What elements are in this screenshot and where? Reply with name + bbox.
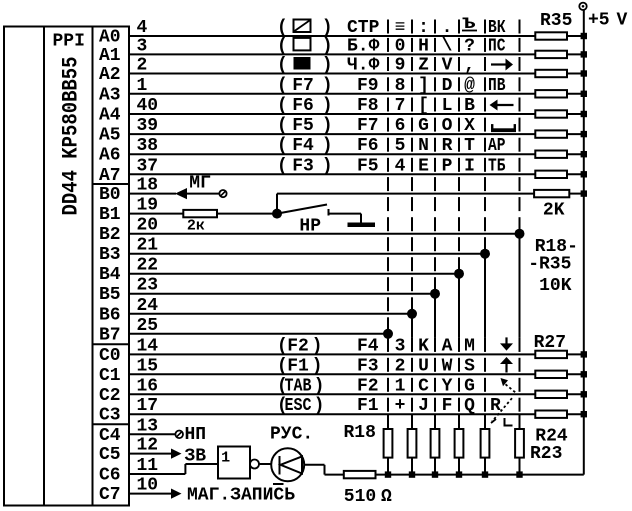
junction B7 column 1 (383, 329, 393, 339)
ground bar (348, 223, 376, 228)
wire R20 to bottom rail (434, 458, 436, 475)
wire R21 to bottom rail (458, 458, 460, 475)
svg-text:F6: F6 (357, 136, 379, 156)
port group separator C3/C4 (93, 423, 130, 425)
wire row C2 pin 16 (129, 393, 535, 395)
svg-text:K: K (418, 336, 429, 356)
junction column 4 bottom rail (456, 471, 462, 477)
svg-text:3: 3 (395, 336, 406, 356)
svg-text:B2: B2 (99, 225, 121, 245)
svg-text:TAB: TAB (285, 376, 312, 396)
wire A7 resistor to +5V rail (567, 173, 584, 175)
svg-text:(: ( (277, 18, 288, 38)
svg-text:): ) (322, 116, 333, 136)
matrix column 5 line x=485 (484, 20, 486, 34)
junction A3 on +5V rail (581, 91, 587, 97)
svg-text:F5: F5 (357, 156, 379, 176)
svg-text:C0: C0 (99, 346, 121, 366)
svg-text:Q: Q (464, 396, 475, 416)
wire C5 pin 12 (129, 453, 171, 455)
svg-text:ВК: ВК (488, 18, 506, 38)
svg-text:A2: A2 (99, 65, 121, 85)
svg-text:C3: C3 (99, 406, 121, 426)
svg-text:1: 1 (221, 450, 230, 467)
svg-text:F1: F1 (357, 396, 379, 416)
wire row A2 pin 2 (129, 73, 535, 75)
junction column 2 bottom rail (409, 471, 415, 477)
IC inner divider left (43, 27, 45, 506)
svg-text:.: . (442, 18, 453, 38)
svg-text:R: R (442, 136, 453, 156)
svg-text:F4: F4 (357, 336, 379, 356)
svg-text:Z: Z (418, 56, 429, 76)
wire A6 resistor to +5V rail (567, 153, 584, 155)
svg-text:ПВ: ПВ (488, 76, 506, 96)
svg-text::: : (418, 18, 429, 38)
svg-text:2: 2 (395, 356, 406, 376)
resistor R25 row C2 (535, 391, 567, 398)
svg-text:-R35: -R35 (528, 255, 571, 275)
IC DD44 KP580BB55 box (4, 27, 129, 506)
junction C2 on +5V rail (581, 391, 587, 397)
svg-text:@: @ (464, 76, 475, 96)
wire row A7 pin 37 (129, 173, 535, 175)
terminal NP circle (175, 431, 183, 439)
junction column 6 bottom rail (516, 471, 522, 477)
wire B6 pin 24 (129, 313, 412, 315)
svg-text:+5: +5 (588, 11, 610, 31)
svg-text:F3: F3 (292, 156, 314, 176)
svg-text:F9: F9 (357, 76, 379, 96)
svg-text:Ω: Ω (381, 487, 392, 507)
key arrow left (497, 104, 514, 106)
wire B2 pin 20 (129, 233, 520, 235)
wire C4 pin 13 (129, 433, 175, 435)
svg-text:B4: B4 (99, 265, 121, 285)
svg-text:2к: 2к (187, 217, 205, 234)
LED cathode bar (279, 456, 281, 475)
port group separator B/C (93, 343, 130, 345)
svg-text:C: C (418, 376, 429, 396)
svg-text:Н: Н (418, 36, 429, 56)
key arrow diag up-left (501, 378, 509, 386)
terminal +5V (579, 3, 586, 10)
wire R23 to bottom rail (519, 458, 521, 475)
svg-text:V: V (617, 11, 628, 31)
key arrow right (491, 63, 506, 65)
wire row A4 pin 40 (129, 113, 535, 115)
svg-text:Ч.Ф: Ч.Ф (347, 56, 380, 76)
svg-text:R: R (490, 396, 501, 416)
svg-text:C5: C5 (99, 445, 121, 465)
wire A5 resistor to +5V rail (567, 133, 584, 135)
resistor R29 row A6 (535, 151, 567, 158)
svg-text:1: 1 (395, 376, 406, 396)
overline on C of ZAPIS (273, 483, 284, 485)
key symbol box-diag (294, 20, 311, 33)
svg-text:(: ( (277, 156, 288, 176)
svg-text:B7: B7 (99, 325, 121, 345)
svg-text:R23: R23 (530, 444, 562, 464)
junction A1 on +5V rail (581, 51, 587, 57)
wire LED right (304, 464, 324, 466)
wire switch to ground (329, 213, 362, 215)
svg-text:\: \ (442, 36, 453, 56)
svg-text:R18: R18 (344, 423, 376, 443)
key space bar (491, 128, 516, 132)
svg-text:B0: B0 (99, 185, 121, 205)
resistor R24 row C3 (535, 411, 567, 418)
wire B5 pin 23 (129, 293, 435, 295)
svg-text:(: ( (277, 76, 288, 96)
svg-text:10K: 10K (539, 276, 572, 296)
resistor R20 column 3 (431, 429, 440, 458)
svg-text:T: T (464, 136, 475, 156)
svg-text:B1: B1 (99, 205, 121, 225)
svg-text:): ) (322, 96, 333, 116)
svg-text:АР: АР (488, 136, 506, 156)
svg-text:O: O (442, 116, 453, 136)
svg-text:2K: 2K (543, 201, 565, 221)
svg-text:F7: F7 (292, 76, 314, 96)
port group separator A/B (93, 183, 130, 185)
matrix column 4 line x=459 (458, 20, 460, 34)
resistor R22 column 5 (481, 429, 490, 458)
junction A6 on +5V rail (581, 151, 587, 157)
resistor R19 column 2 (408, 429, 417, 458)
matrix column 1 line x=388 (387, 20, 389, 34)
matrix column 3 line x=435 (434, 20, 436, 34)
svg-text:P: P (442, 156, 453, 176)
junction B1 node (272, 209, 282, 219)
arrow MAG.ZAPIS output (171, 489, 182, 499)
wire R22 to bottom rail (484, 458, 486, 475)
wire gate to LED (259, 463, 271, 465)
LED VD RUS circle (271, 448, 304, 481)
wire B1 pin 19 (129, 213, 183, 215)
resistor R34 row A1 (535, 51, 567, 58)
svg-text:A5: A5 (99, 126, 121, 146)
svg-text:F3: F3 (357, 356, 379, 376)
svg-text:V: V (442, 56, 453, 76)
svg-text:S: S (464, 356, 475, 376)
svg-text:I: I (464, 156, 475, 176)
junction 2K on rail (581, 190, 587, 196)
junction column 1 bottom rail (385, 471, 391, 477)
svg-text:(: ( (277, 116, 288, 136)
wire +5V vertical rail (583, 10, 585, 475)
wire C0 resistor to +5V rail (567, 353, 584, 355)
svg-text:F6: F6 (292, 96, 314, 116)
svg-text:E: E (418, 156, 429, 176)
junction B5 column 3 (430, 289, 440, 299)
resistor R21 column 4 (455, 429, 464, 458)
wire B7 pin 25 (129, 333, 388, 335)
svg-text:F7: F7 (357, 116, 379, 136)
svg-text:B6: B6 (99, 305, 121, 325)
resistor R33 row A2 (535, 70, 567, 77)
matrix column 6 line x=519.5 (519, 20, 521, 34)
svg-text:F1: F1 (287, 356, 309, 376)
svg-text:A6: A6 (99, 146, 121, 166)
resistor R27 row C0 (535, 351, 567, 358)
svg-text:510: 510 (344, 487, 376, 507)
junction C1 on +5V rail (581, 371, 587, 377)
svg-text:НП: НП (185, 425, 207, 445)
junction B3 column 5 (480, 249, 490, 259)
svg-text:ТБ: ТБ (488, 156, 506, 176)
svg-text:): ) (314, 396, 325, 416)
svg-text:): ) (322, 76, 333, 96)
svg-text:PPI: PPI (53, 32, 85, 52)
junction A5 on +5V rail (581, 131, 587, 137)
svg-text:A3: A3 (99, 85, 121, 105)
svg-text:C4: C4 (99, 426, 121, 446)
wire A0 resistor to +5V rail (567, 35, 584, 37)
svg-text:DD44 KP580BB55: DD44 KP580BB55 (59, 57, 84, 216)
svg-text:8: 8 (395, 76, 406, 96)
wire B0 pin 18 (129, 193, 176, 195)
svg-text:): ) (312, 336, 323, 356)
svg-text:ПС: ПС (488, 36, 506, 56)
svg-text:X: X (464, 116, 475, 136)
wire B1 to junction (217, 213, 277, 215)
wire C6 to gate input (185, 463, 218, 465)
wire down to ground (360, 214, 362, 223)
resistor R35 row A0 (535, 32, 567, 39)
svg-text:D: D (442, 76, 453, 96)
svg-text:(: ( (277, 336, 288, 356)
junction column 5 bottom rail (482, 471, 488, 477)
junction A0 on +5V rail (581, 33, 587, 39)
svg-text:N: N (418, 136, 429, 156)
svg-text:): ) (314, 376, 325, 396)
wire C6 pin 11 (129, 473, 185, 475)
svg-text:≡: ≡ (395, 18, 406, 38)
key symbol box-filled (294, 57, 311, 70)
resistor R26 row C1 (535, 371, 567, 378)
resistor R31 row A4 (535, 110, 567, 117)
resistor 2K pull-up (534, 190, 569, 197)
svg-text:F5: F5 (292, 116, 314, 136)
resistor R28 row A7 (535, 171, 567, 178)
wire C3 resistor to +5V rail (567, 413, 584, 415)
svg-text:B3: B3 (99, 245, 121, 265)
wire LED down (324, 465, 326, 475)
wire A3 resistor to +5V rail (567, 93, 584, 95)
wire C1 resistor to +5V rail (567, 373, 584, 375)
svg-text:B5: B5 (99, 285, 121, 305)
svg-text:F8: F8 (357, 96, 379, 116)
resistor 510 Ohm (344, 471, 376, 478)
svg-text:[: [ (418, 96, 429, 116)
wire A2 resistor to +5V rail (567, 73, 584, 75)
wire row A5 pin 39 (129, 133, 535, 135)
svg-text:): ) (322, 18, 333, 38)
svg-text:(: ( (277, 36, 288, 56)
wire A1 resistor to +5V rail (567, 53, 584, 55)
svg-text:G: G (418, 116, 429, 136)
resistor R32 row A3 (535, 90, 567, 97)
svg-text:R27: R27 (534, 333, 566, 353)
key symbol box-open (294, 38, 311, 51)
wire A4 resistor to +5V rail (567, 113, 584, 115)
svg-text:W: W (442, 356, 453, 376)
wire row A0 pin 4 (129, 35, 535, 37)
svg-text:): ) (322, 36, 333, 56)
key arrow diag down-left (492, 398, 512, 421)
wire 2K to rail (569, 193, 584, 195)
wire riser B1 to pullup line (276, 194, 278, 214)
junction A2 on +5V rail (581, 70, 587, 76)
svg-text:L: L (442, 96, 453, 116)
svg-text:МАГ.ЗАПИСЬ: МАГ.ЗАПИСЬ (187, 486, 295, 506)
svg-text:F: F (442, 396, 453, 416)
resistor R23 column 6 (515, 429, 524, 458)
wire R18 to bottom rail (387, 458, 389, 475)
wire to 510 resistor (325, 474, 344, 476)
svg-text:(: ( (277, 136, 288, 156)
junction B4 column 4 (454, 269, 464, 279)
wire C6 riser (184, 464, 186, 474)
resistor R18 column 1 (384, 429, 393, 458)
svg-text:C2: C2 (99, 386, 121, 406)
svg-text:F4: F4 (292, 136, 314, 156)
svg-text:F2: F2 (357, 376, 379, 396)
wire B3 pin 21 (129, 253, 485, 255)
svg-text:C1: C1 (99, 366, 121, 386)
svg-text:R35: R35 (540, 11, 572, 31)
wire row A3 pin 1 (129, 93, 535, 95)
svg-text:A1: A1 (99, 46, 121, 66)
svg-text:9: 9 (395, 56, 406, 76)
svg-text:): ) (322, 156, 333, 176)
svg-text:C6: C6 (99, 466, 121, 486)
svg-text:A4: A4 (99, 106, 121, 126)
svg-text:F2: F2 (287, 336, 309, 356)
gate inverter bubble (250, 460, 259, 469)
svg-text:0: 0 (395, 36, 406, 56)
svg-text:4: 4 (395, 156, 406, 176)
svg-text:J: J (418, 396, 429, 416)
svg-text:(: ( (277, 96, 288, 116)
junction A7 on +5V rail (581, 171, 587, 177)
wire row A6 pin 38 (129, 153, 535, 155)
terminal MG circle (219, 190, 226, 197)
svg-text:РУС.: РУС. (270, 425, 313, 445)
svg-text:+: + (395, 396, 406, 416)
svg-text:?: ? (464, 36, 475, 56)
junction B6 column 2 (407, 309, 417, 319)
svg-text:A0: A0 (99, 28, 121, 48)
wire to MG terminal (187, 193, 219, 195)
wire B4 pin 22 (129, 273, 459, 275)
key arrow down (505, 337, 507, 346)
wire row C1 pin 15 (129, 373, 535, 375)
svg-text:6: 6 (395, 116, 406, 136)
wire bottom +5V rail (376, 474, 584, 476)
svg-text:): ) (312, 356, 323, 376)
junction A4 on +5V rail (581, 111, 587, 117)
svg-text:): ) (322, 136, 333, 156)
svg-text:Б.Ф: Б.Ф (347, 36, 380, 56)
switch NR lever (277, 205, 327, 214)
svg-text:7: 7 (395, 96, 406, 116)
arrow MG output (175, 188, 187, 199)
svg-text:,: , (464, 56, 475, 76)
svg-text:M: M (464, 336, 475, 356)
resistor R30 row A5 (535, 130, 567, 137)
svg-text:A: A (442, 336, 453, 356)
svg-text:МГ: МГ (189, 174, 211, 194)
gate DD inverter box (218, 447, 250, 479)
svg-text:СТР: СТР (347, 18, 380, 38)
wire B1 pullup line to 2K (277, 193, 534, 195)
svg-text:5: 5 (395, 136, 406, 156)
svg-text:(: ( (277, 356, 288, 376)
wire R19 to bottom rail (411, 458, 413, 475)
LED anode triangle (281, 457, 303, 474)
svg-text:A7: A7 (99, 166, 121, 186)
junction C3 on +5V rail (581, 411, 587, 417)
wire row A1 pin 3 (129, 53, 535, 55)
wire C2 resistor to +5V rail (567, 393, 584, 395)
wire row C0 pin 14 (129, 353, 535, 355)
svg-text:G: G (464, 376, 475, 396)
junction B2 column 6 (515, 229, 525, 239)
svg-text:ESC: ESC (285, 396, 312, 416)
resistor 2K left (183, 210, 217, 217)
wire C7 pin 10 (129, 493, 171, 495)
junction column 3 bottom rail (432, 471, 438, 477)
svg-text:Y: Y (442, 376, 453, 396)
IC inner divider right (92, 27, 94, 506)
svg-text:(: ( (277, 56, 288, 76)
svg-text:U: U (418, 356, 429, 376)
svg-text:]: ] (418, 76, 429, 96)
junction C0 on +5V rail (581, 351, 587, 357)
svg-text:): ) (322, 56, 333, 76)
key arrow up (505, 362, 507, 372)
wire row C3 pin 17 (129, 413, 535, 415)
svg-text:C7: C7 (99, 485, 121, 505)
switch NR fixed contact (328, 209, 330, 216)
matrix column 2 line x=412 (411, 20, 413, 34)
svg-text:B: B (464, 96, 475, 116)
arrow ZV output (171, 449, 182, 459)
